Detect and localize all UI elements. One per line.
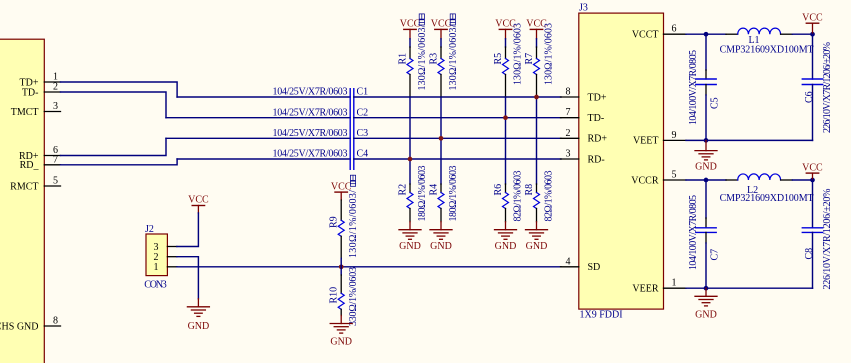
- svg-text:CHS GND: CHS GND: [0, 321, 39, 332]
- wire RD+ pin6 to C3 line: [61, 138, 167, 155]
- resistor R3 130ohm pull-up: [428, 14, 459, 97]
- svg-text:R1: R1: [397, 53, 408, 65]
- svg-text:C8: C8: [804, 248, 815, 260]
- wire J2 pin2 to GND: [177, 257, 199, 299]
- svg-text:GND: GND: [330, 337, 352, 348]
- wire R3 column vertical: [440, 97, 442, 184]
- svg-text:3: 3: [53, 101, 58, 112]
- svg-text:CMP321609XD100MT: CMP321609XD100MT: [720, 45, 814, 56]
- svg-text:GND: GND: [188, 321, 210, 332]
- svg-text:104/25V/X7R/0603: 104/25V/X7R/0603: [273, 107, 348, 118]
- power port GND below R10: [330, 316, 352, 348]
- svg-text:GND: GND: [526, 241, 548, 252]
- svg-text:104/25V/X7R/0603: 104/25V/X7R/0603: [273, 128, 348, 139]
- svg-text:8: 8: [566, 87, 571, 98]
- wire net RD- right of C4: [354, 158, 561, 160]
- svg-text:104/25V/X7R/0603: 104/25V/X7R/0603: [273, 87, 348, 98]
- svg-text:C5: C5: [710, 97, 721, 109]
- svg-text:6: 6: [672, 24, 677, 35]
- svg-text:R7: R7: [524, 53, 535, 65]
- resistor R1 130ohm pull-up: [397, 14, 428, 97]
- svg-text:4: 4: [566, 256, 571, 267]
- wire net RD+ right of C3: [354, 137, 561, 139]
- pin 3 RD- of J3: [561, 149, 605, 166]
- svg-text:7: 7: [566, 107, 571, 118]
- svg-text:RD_: RD_: [20, 160, 40, 171]
- svg-text:130Ω/1%/0603/: 130Ω/1%/0603/: [348, 190, 359, 258]
- svg-text:RD+: RD+: [588, 134, 608, 145]
- capacitor C5 104/100V/X7R/0805: [688, 34, 721, 140]
- svg-text:R4: R4: [428, 184, 439, 196]
- svg-text:130Ω/1%/0603/: 130Ω/1%/0603/: [448, 24, 459, 90]
- wire net TD+ right of C1: [354, 96, 561, 98]
- wire net VCCR L2 to VCC: [792, 179, 812, 181]
- resistor R5 130ohm pull-up: [493, 23, 524, 97]
- svg-text:9: 9: [672, 130, 677, 141]
- svg-text:VCCR: VCCR: [631, 175, 659, 186]
- junction on net RD- at R1/R2: [408, 157, 413, 162]
- svg-text:1: 1: [672, 278, 677, 289]
- svg-text:R5: R5: [493, 53, 504, 65]
- connector J2 CON3 body: [146, 234, 167, 276]
- capacitor C8 226/10V/X7R/1206: [802, 180, 833, 290]
- svg-text:C7: C7: [710, 249, 721, 261]
- component U1 PHY module (left, clipped): [0, 39, 44, 363]
- capacitor C6 226/10V/X7R/1206: [802, 34, 833, 140]
- svg-text:GND: GND: [430, 241, 452, 252]
- wire net TD+ left of C1: [177, 96, 350, 98]
- svg-text:R9: R9: [329, 216, 340, 228]
- wire R7 column vertical: [536, 97, 538, 184]
- pin 2 RD+ of J3: [561, 128, 608, 145]
- svg-text:TD-: TD-: [22, 87, 39, 98]
- svg-text:130Ω/1%/0603: 130Ω/1%/0603: [544, 23, 555, 85]
- pin 6 RD+ of U1: [44, 155, 60, 157]
- svg-text:180Ω/1%/0603: 180Ω/1%/0603: [417, 166, 428, 222]
- svg-text:82Ω/1%/0603: 82Ω/1%/0603: [513, 171, 524, 222]
- svg-text:J3: J3: [579, 3, 588, 14]
- pin 7 RD_ of U1: [44, 164, 60, 166]
- svg-text:GND: GND: [495, 241, 517, 252]
- pin 3 TMCT of U1: [44, 111, 60, 113]
- pin 8 TD+ of J3: [561, 87, 607, 104]
- wire net RD+ left of C3: [166, 137, 350, 139]
- svg-text:GND: GND: [695, 162, 717, 173]
- pin 1 TD+ of U1: [44, 81, 60, 83]
- svg-text:TMCT: TMCT: [11, 107, 39, 118]
- svg-text:8: 8: [53, 316, 58, 327]
- svg-text:R3: R3: [428, 53, 439, 65]
- pin 6 VCCT of J3: [632, 24, 686, 41]
- capacitor C7 104/100V/X7R/0805: [688, 180, 721, 288]
- power port GND on net VEET: [695, 140, 717, 172]
- svg-text:226/10V/X7R/1206/±20%: 226/10V/X7R/1206/±20%: [822, 42, 833, 133]
- svg-text:104/100V/X7R/0805: 104/100V/X7R/0805: [688, 195, 699, 270]
- power port GND below R4: [430, 222, 452, 252]
- power port VCC above R9: [331, 182, 352, 200]
- capacitor C1 plates: [350, 89, 354, 170]
- wire net TD- left of C2: [166, 117, 350, 119]
- power port VCC above R5: [495, 18, 516, 38]
- svg-text:330Ω/1%/0603: 330Ω/1%/0603: [348, 267, 359, 326]
- wire TD+ pin1 to C1 line: [61, 82, 178, 97]
- svg-text:C1: C1: [357, 87, 369, 98]
- svg-text:C3: C3: [357, 128, 369, 139]
- svg-text:C6: C6: [804, 91, 815, 103]
- junction net VEER at C7/GND: [704, 286, 709, 291]
- svg-text:R6: R6: [493, 184, 504, 196]
- resistor R8 82ohm pull-down: [524, 171, 555, 222]
- svg-text:C2: C2: [357, 107, 369, 118]
- svg-text:VCC: VCC: [188, 195, 209, 206]
- pin 9 VEET of J3: [633, 130, 686, 147]
- svg-text:130Ω/1%/0603: 130Ω/1%/0603: [513, 23, 524, 85]
- svg-text:RMCT: RMCT: [10, 181, 38, 192]
- svg-text:R8: R8: [524, 184, 535, 196]
- pin 2 TD- of U1: [44, 91, 60, 93]
- power port VCC above R1: [400, 18, 421, 38]
- wire net VEET pin9 to C6: [686, 139, 813, 141]
- power port GND below J2: [187, 299, 209, 332]
- svg-text:5: 5: [53, 176, 58, 187]
- svg-text:GND: GND: [399, 241, 421, 252]
- junction net VCCT at C6: [810, 32, 815, 37]
- pin 4 SD of J3: [561, 256, 601, 273]
- resistor R2 180ohm pull-down: [397, 166, 428, 222]
- power port VCC above R3: [431, 18, 452, 38]
- svg-text:TD-: TD-: [588, 113, 605, 124]
- pin 8 CHS GND of U1: [44, 325, 60, 327]
- wire net VEER pin1 to C8: [686, 287, 813, 289]
- junction net VCCT at C5: [704, 32, 709, 37]
- wire J2 pin3 to VCC: [177, 213, 199, 247]
- power port VCC right of L2: [802, 163, 823, 180]
- svg-text:VEER: VEER: [632, 284, 658, 295]
- pin 1 of J2: [154, 262, 177, 273]
- svg-text:180Ω/1%/0603: 180Ω/1%/0603: [448, 166, 459, 222]
- pin 5 VCCR of J3: [631, 170, 686, 187]
- resistor R6 82ohm pull-down: [493, 171, 524, 222]
- wire TD- pin2 to C2 line: [61, 92, 167, 118]
- wire R1 column vertical: [409, 97, 411, 184]
- svg-text:82Ω/1%/0603: 82Ω/1%/0603: [544, 171, 555, 222]
- pin 5 RMCT of U1: [44, 185, 60, 187]
- connector J3 1X9 FDDI body: [579, 13, 664, 309]
- power port GND below R2: [399, 222, 421, 252]
- power port GND on net VEER: [695, 288, 717, 320]
- svg-text:7: 7: [53, 154, 58, 165]
- pin 3 of J2: [154, 242, 177, 253]
- junction on net SD at R9/R10: [339, 264, 344, 269]
- power port GND below R8: [526, 222, 548, 252]
- svg-text:226/10V/X7R/1206/±20%: 226/10V/X7R/1206/±20%: [822, 189, 833, 290]
- svg-text:TD+: TD+: [588, 92, 607, 103]
- wire R5 column vertical: [505, 97, 507, 184]
- power port VCC right of L1: [802, 13, 823, 35]
- wire net VCCT pin6 to L1: [686, 33, 726, 35]
- svg-text:1X9 FDDI: 1X9 FDDI: [580, 310, 623, 321]
- power port VCC above J2: [188, 195, 209, 214]
- svg-text:2: 2: [53, 82, 58, 93]
- svg-text:VCC: VCC: [802, 13, 823, 24]
- svg-text:CON3: CON3: [144, 279, 167, 290]
- svg-text:2: 2: [566, 128, 571, 139]
- resistor R7 130ohm pull-up: [524, 23, 555, 97]
- junction on net RD+ at R3/R4: [439, 136, 444, 141]
- wire net VCCT L1 to VCC: [792, 33, 812, 35]
- svg-text:J2: J2: [145, 224, 154, 235]
- svg-text:C4: C4: [357, 149, 369, 160]
- junction net VCCR at C8: [810, 178, 815, 183]
- svg-text:R10: R10: [329, 287, 340, 304]
- junction on net TD+ at R7/R8: [534, 95, 539, 100]
- svg-text:CMP321609XD100MT: CMP321609XD100MT: [720, 193, 814, 204]
- pin 2 of J2: [154, 252, 177, 263]
- junction on net TD- at R5/R6: [503, 115, 508, 120]
- svg-text:VCC: VCC: [802, 163, 823, 174]
- pin 7 TD- of J3: [561, 107, 605, 124]
- svg-text:VCCT: VCCT: [632, 30, 659, 41]
- inductor L2 CMP321609XD100MT: [720, 174, 814, 204]
- svg-text:3: 3: [566, 149, 571, 160]
- wire net RD- left of C4: [177, 158, 350, 160]
- resistor R9 130ohm pull-up: [329, 175, 360, 267]
- power port GND below R6: [495, 222, 517, 252]
- pin 1 VEER of J3: [632, 278, 686, 295]
- junction net VCCR at C7: [704, 178, 709, 183]
- inductor L1 CMP321609XD100MT: [720, 28, 814, 55]
- svg-text:130Ω/1%/0603/: 130Ω/1%/0603/: [417, 24, 428, 90]
- svg-text:GND: GND: [695, 309, 717, 320]
- resistor R10 330ohm pull-down: [329, 267, 360, 326]
- svg-text:5: 5: [672, 170, 677, 181]
- wire net SD from J2 pin1 to J3: [177, 266, 561, 268]
- svg-text:104/25V/X7R/0603: 104/25V/X7R/0603: [273, 149, 348, 160]
- svg-text:1: 1: [154, 262, 159, 273]
- junction net VEET at C5/GND: [704, 138, 709, 143]
- svg-text:RD-: RD-: [588, 154, 605, 165]
- svg-text:SD: SD: [588, 262, 601, 273]
- svg-text:104/100V/X7R/0805: 104/100V/X7R/0805: [688, 50, 699, 125]
- power port VCC above R7: [526, 18, 547, 38]
- wire RD_ pin7 to C4 line: [61, 159, 178, 165]
- wire net VCCR pin5 to L2: [686, 179, 726, 181]
- svg-text:R2: R2: [397, 184, 408, 196]
- wire net TD- right of C2: [354, 117, 561, 119]
- svg-text:VEET: VEET: [633, 136, 659, 147]
- resistor R4 180ohm pull-down: [428, 166, 459, 222]
